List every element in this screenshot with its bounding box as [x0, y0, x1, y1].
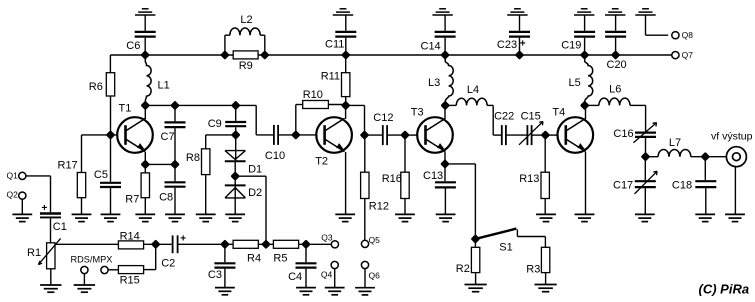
svg-text:C19: C19 [561, 40, 581, 52]
svg-text:R9: R9 [239, 60, 253, 72]
svg-text:C13: C13 [423, 170, 443, 182]
svg-text:C18: C18 [672, 180, 692, 192]
svg-text:Q3: Q3 [321, 232, 333, 242]
svg-text:C11: C11 [325, 39, 344, 51]
svg-text:+: + [42, 203, 48, 214]
svg-text:L5: L5 [569, 77, 581, 89]
svg-text:R4: R4 [247, 252, 261, 264]
svg-text:C2: C2 [161, 257, 175, 269]
svg-text:T1: T1 [119, 103, 132, 115]
svg-text:S1: S1 [499, 242, 512, 254]
svg-text:Q8: Q8 [682, 30, 694, 40]
svg-text:C6: C6 [126, 40, 140, 52]
svg-text:R5: R5 [273, 252, 287, 264]
svg-text:L6: L6 [609, 84, 621, 96]
svg-text:Q7: Q7 [682, 50, 694, 60]
svg-text:C22: C22 [494, 111, 514, 123]
svg-text:+: + [520, 39, 526, 50]
svg-text:R3: R3 [526, 264, 540, 276]
svg-text:C10: C10 [265, 150, 285, 162]
svg-text:Q6: Q6 [369, 270, 381, 280]
svg-text:R10: R10 [303, 89, 323, 101]
svg-text:+: + [180, 233, 186, 244]
svg-text:T2: T2 [315, 156, 328, 168]
svg-text:vf výstup: vf výstup [711, 130, 753, 142]
svg-text:C4: C4 [288, 271, 302, 283]
svg-text:C23: C23 [497, 39, 517, 51]
svg-text:C5: C5 [94, 169, 108, 181]
svg-text:C7: C7 [161, 131, 175, 143]
svg-text:R6: R6 [89, 81, 103, 93]
svg-text:C17: C17 [613, 180, 633, 192]
svg-text:Q4: Q4 [321, 270, 333, 280]
svg-text:R1: R1 [27, 247, 41, 259]
svg-text:D2: D2 [248, 187, 262, 199]
svg-text:C3: C3 [208, 269, 222, 281]
svg-text:R8: R8 [186, 152, 200, 164]
svg-text:(C) PiRa: (C) PiRa [699, 282, 750, 297]
svg-text:R14: R14 [120, 231, 140, 243]
svg-text:C15: C15 [521, 111, 541, 123]
svg-text:C20: C20 [607, 59, 627, 71]
svg-text:L3: L3 [428, 77, 440, 89]
svg-text:Q5: Q5 [369, 235, 381, 245]
svg-text:T3: T3 [411, 106, 424, 118]
svg-text:C16: C16 [613, 128, 633, 140]
svg-text:R13: R13 [519, 173, 539, 185]
svg-text:R17: R17 [58, 160, 78, 172]
svg-text:T4: T4 [552, 106, 565, 118]
svg-text:Q1: Q1 [7, 170, 19, 180]
svg-text:C1: C1 [53, 221, 67, 233]
svg-text:C12: C12 [373, 112, 393, 124]
svg-text:D1: D1 [248, 163, 262, 175]
svg-text:C14: C14 [421, 40, 441, 52]
svg-text:R11: R11 [321, 70, 340, 82]
svg-text:L1: L1 [158, 80, 170, 92]
svg-text:R7: R7 [125, 194, 139, 206]
svg-text:L2: L2 [240, 14, 252, 26]
svg-text:RDS/MPX: RDS/MPX [71, 255, 113, 265]
svg-text:Q2: Q2 [7, 190, 19, 200]
svg-text:C8: C8 [159, 192, 173, 204]
svg-text:L7: L7 [669, 137, 681, 149]
svg-text:R15: R15 [120, 275, 140, 287]
svg-text:L4: L4 [467, 84, 479, 96]
svg-text:R12: R12 [369, 201, 389, 213]
svg-text:R2: R2 [456, 263, 470, 275]
svg-text:R16: R16 [382, 173, 402, 185]
svg-text:C9: C9 [208, 118, 222, 130]
